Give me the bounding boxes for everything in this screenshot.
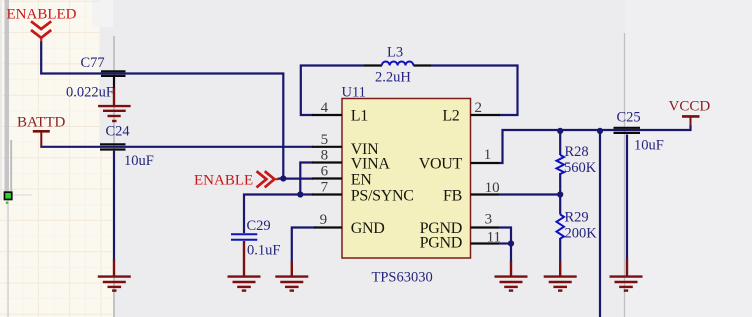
pin 8 (VINA): [312, 148, 390, 173]
wire PS/SYNC branch to C29: [244, 195, 313, 234]
svg-text:10uF: 10uF: [634, 138, 664, 154]
C29 designator: [247, 218, 271, 234]
svg-text:10uF: 10uF: [124, 153, 154, 169]
svg-text:L1: L1: [351, 108, 368, 125]
svg-text:C29: C29: [247, 218, 271, 234]
ground (C29): [228, 241, 261, 291]
wire PGND pins to ground: [499, 228, 511, 263]
IC U1 TPS63030 body: [342, 99, 471, 259]
R29 value 200K: [565, 226, 598, 242]
wire main vertical to bottom edge: [599, 130, 601, 317]
ground (C77): [98, 88, 131, 121]
svg-text:10: 10: [485, 180, 500, 196]
wire GND pin 9 to ground: [292, 228, 315, 263]
wire VINA branch: [300, 163, 313, 195]
C24 value 10uF: [124, 153, 154, 169]
pin 3 (PGND): [420, 212, 499, 238]
capacitor C24: [100, 144, 126, 149]
svg-text:ENABLE: ENABLE: [194, 173, 253, 189]
wire L3 loop right: [431, 66, 518, 116]
sheet gray vertical line left: [113, 36, 115, 317]
capacitor C29 (blue): [231, 234, 257, 240]
green selection handle: [4, 191, 13, 204]
C24 designator: [106, 124, 131, 140]
wire BATTD/VIN rail: [40, 146, 313, 148]
left edge gray band: [0, 0, 32, 317]
svg-text:R29: R29: [565, 210, 589, 226]
svg-text:C77: C77: [81, 55, 105, 71]
wire FB to divider: [499, 193, 560, 195]
pin 11 (PGND): [420, 229, 501, 251]
junction node FB divider: [557, 191, 563, 197]
wire ENABLE chevron to EN pin: [278, 178, 314, 180]
junction node EN: [280, 175, 286, 181]
svg-text:FB: FB: [443, 187, 462, 204]
svg-text:VCCD: VCCD: [669, 99, 711, 115]
junction node PS/SYNC: [297, 191, 303, 197]
wire L3 loop left: [301, 66, 364, 116]
svg-text:11: 11: [487, 229, 501, 245]
svg-text:1: 1: [484, 147, 492, 163]
C25 value 10uF: [634, 138, 664, 154]
L3 designator: [387, 45, 403, 61]
designator U11: [342, 85, 366, 101]
inductor L3: [364, 62, 431, 66]
R29 designator: [565, 210, 589, 226]
svg-text:0.022uF: 0.022uF: [66, 85, 114, 101]
ground (C24 bottom): [98, 259, 131, 291]
svg-text:2.2uH: 2.2uH: [375, 70, 411, 86]
svg-text:L2: L2: [442, 108, 459, 125]
svg-text:7: 7: [321, 180, 329, 196]
pin 2 (L2): [442, 100, 500, 125]
value label TPS63030: [372, 270, 433, 286]
pin 4 (L1): [312, 100, 368, 125]
power port VCCD: [669, 99, 711, 127]
L3 value 2.2uH: [375, 70, 411, 86]
ground (GND pin 9): [275, 261, 308, 291]
resistor R29: [557, 215, 565, 239]
wire ENABLED net: port to C77 rail and down to EN junction: [41, 41, 283, 179]
svg-text:VOUT: VOUT: [419, 156, 463, 173]
wire R29 leads: [559, 195, 561, 263]
pin 9 (GND): [314, 212, 385, 237]
C77 designator: [81, 55, 105, 71]
svg-text:VINA: VINA: [351, 155, 391, 172]
wire R28 leads: [559, 130, 561, 195]
svg-text:ENABLED: ENABLED: [7, 7, 77, 23]
svg-text:560K: 560K: [564, 160, 597, 176]
svg-text:6: 6: [321, 164, 329, 180]
ground (C25): [610, 259, 643, 291]
svg-text:PGND: PGND: [420, 235, 462, 252]
pin 6 (EN): [312, 164, 372, 189]
svg-text:5: 5: [321, 132, 329, 148]
capacitor C77: [101, 71, 126, 88]
capacitor C25: [614, 128, 641, 133]
C25 designator: [617, 110, 641, 126]
svg-text:PS/SYNC: PS/SYNC: [351, 187, 414, 204]
sheet gray vertical line right: [624, 33, 626, 317]
svg-text:3: 3: [485, 212, 493, 228]
svg-text:4: 4: [321, 100, 329, 116]
junction node PGND: [508, 240, 514, 246]
pin 10 (FB): [443, 180, 500, 204]
wire VOUT rail: [499, 125, 691, 163]
resistor R28: [557, 155, 565, 174]
wire C25 drop to ground: [626, 135, 628, 260]
svg-text:200K: 200K: [565, 226, 598, 242]
svg-text:9: 9: [320, 212, 328, 228]
svg-text:BATTD: BATTD: [17, 115, 66, 131]
svg-text:L3: L3: [387, 45, 403, 61]
junction node R28 top: [557, 128, 563, 134]
pin 5 (VIN): [312, 132, 379, 158]
junction node rail/vertical: [597, 128, 603, 134]
svg-text:R28: R28: [565, 144, 589, 160]
svg-text:TPS63030: TPS63030: [372, 270, 433, 286]
svg-text:C25: C25: [617, 110, 641, 126]
R28 value 560K: [564, 160, 597, 176]
pin 7 (PS/SYNC): [312, 180, 414, 205]
svg-text:8: 8: [321, 148, 329, 164]
pin 1 (VOUT): [419, 147, 499, 173]
C77 value 0.022uF: [66, 85, 114, 101]
wire C24 drop to ground: [113, 151, 115, 260]
svg-text:U11: U11: [342, 85, 366, 101]
power port BATTD: [17, 115, 66, 147]
svg-text:0.1uF: 0.1uF: [247, 243, 280, 259]
svg-text:C24: C24: [106, 124, 131, 140]
C29 value 0.1uF: [247, 243, 280, 259]
R28 designator: [565, 144, 589, 160]
svg-text:2: 2: [475, 100, 483, 116]
port ENABLE (red, chevron right): [194, 171, 279, 188]
ground (PGND): [495, 261, 528, 291]
ground (R29): [544, 262, 577, 291]
port ENABLED (red, chevron down): [7, 7, 77, 42]
svg-text:GND: GND: [351, 220, 385, 237]
grid lines on cream zone: [0, 0, 113, 317]
svg-text:EN: EN: [351, 171, 372, 188]
